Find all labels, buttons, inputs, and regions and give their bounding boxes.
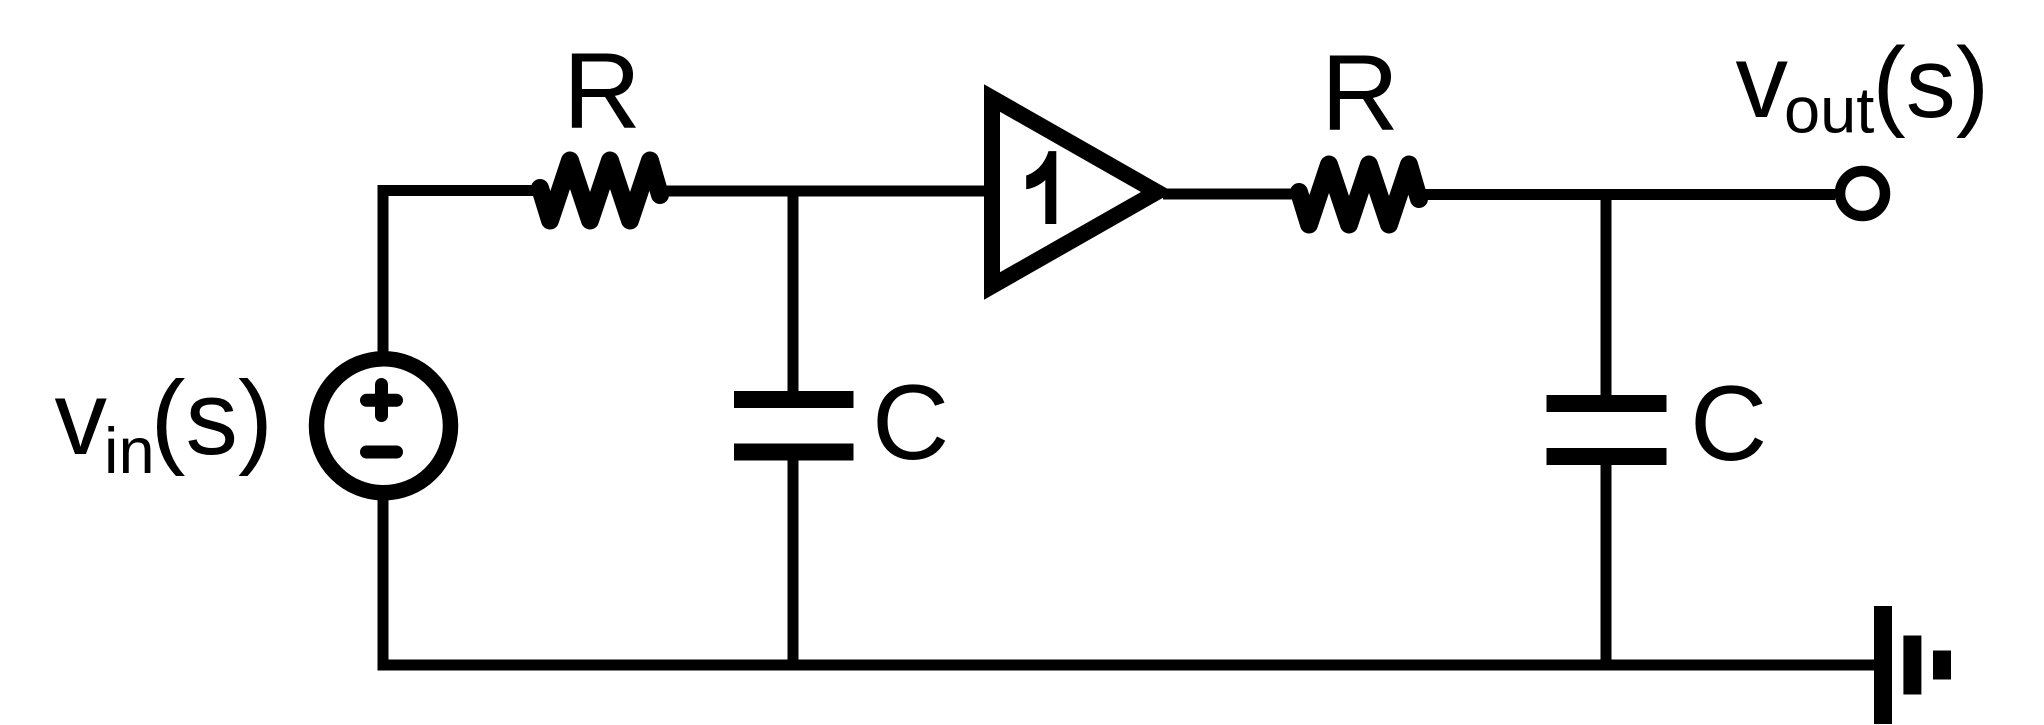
ground symbol bar 1 (tall) (1874, 606, 1892, 724)
svg-text:C: C (872, 362, 949, 482)
wire: source bottom to ground rail corner (378, 493, 389, 665)
svg-text:C: C (1690, 363, 1767, 483)
voltage source VS circle (317, 359, 451, 493)
op-amp U1 (unity-gain buffer triangle) (992, 98, 1157, 286)
capacitor C2 bottom plate (1547, 448, 1667, 465)
label C (of C1) (872, 362, 949, 482)
node A: junction with capacitor C1 branch (788, 190, 799, 392)
svg-text:(s): (s) (1873, 27, 1990, 139)
label R (of R1) (563, 30, 641, 151)
voltage source minus sign (367, 446, 397, 459)
wire: C2 bottom plate to ground rail (1601, 465, 1612, 665)
svg-text:R: R (1321, 32, 1399, 153)
wire: left branch corner (source top to resistor R1) (383, 191, 541, 357)
label 1 (buffer gain) (1026, 151, 1056, 224)
capacitor C1 top plate (734, 391, 854, 408)
label C (of C2) (1690, 363, 1767, 483)
label vout(s) (1736, 23, 1990, 147)
svg-text:v: v (55, 360, 108, 477)
output terminal (open circle) (1840, 171, 1885, 216)
ground symbol bar 2 (medium) (1903, 636, 1921, 695)
capacitor C1 bottom plate (734, 444, 854, 461)
node B: junction with capacitor C2 branch (1601, 194, 1612, 396)
label vin(s) (55, 360, 273, 487)
ground symbol bar 3 (short) (1933, 651, 1951, 680)
wire: C1 bottom plate to ground rail (788, 460, 799, 665)
label R (of R2) (1321, 32, 1399, 153)
svg-text:(s): (s) (151, 360, 273, 477)
wire: R2 to output terminal (through node B) (1418, 189, 1835, 200)
wire: bottom ground rail (378, 660, 1879, 671)
svg-text:R: R (563, 30, 641, 151)
voltage source plus sign (367, 385, 397, 416)
capacitor C2 top plate (1547, 395, 1667, 412)
resistor R1 (540, 161, 660, 221)
svg-text:out: out (1784, 74, 1874, 147)
wire: R1 to buffer input (through node A) (659, 186, 990, 197)
wire: buffer output to resistor R2 (1163, 189, 1300, 200)
resistor R2 (1299, 165, 1419, 225)
svg-text:v: v (1736, 23, 1789, 140)
svg-text:in: in (104, 414, 155, 487)
